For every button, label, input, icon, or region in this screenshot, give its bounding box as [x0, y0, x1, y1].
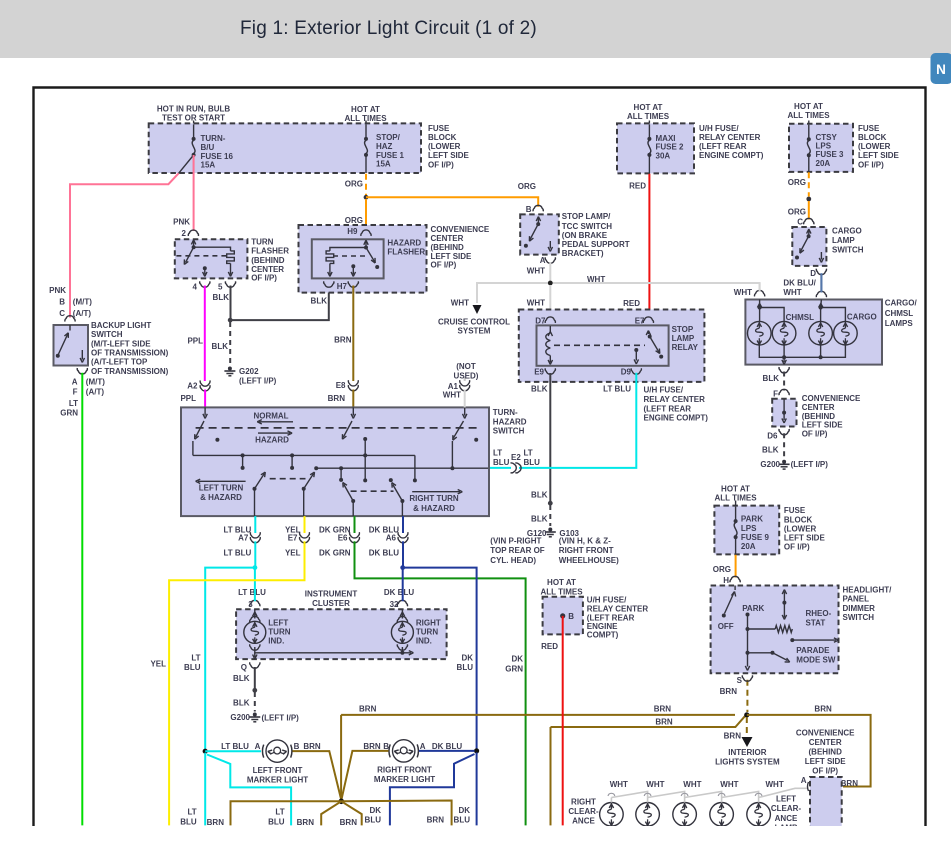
svg-text:A: A	[801, 776, 807, 785]
svg-text:BLK: BLK	[233, 674, 250, 683]
svg-text:CRUISE CONTROL: CRUISE CONTROL	[438, 318, 510, 327]
svg-text:CLEAR-: CLEAR-	[568, 807, 599, 816]
svg-text:IND.: IND.	[268, 636, 284, 645]
svg-text:F: F	[773, 390, 778, 399]
svg-text:BLU: BLU	[180, 817, 197, 826]
svg-text:LEFT FRONT: LEFT FRONT	[253, 766, 303, 775]
svg-text:4: 4	[193, 283, 198, 292]
svg-text:(LOWER: (LOWER	[428, 142, 461, 151]
svg-text:FUSE: FUSE	[858, 124, 880, 133]
svg-text:BLU: BLU	[365, 816, 382, 825]
svg-text:HAZARD: HAZARD	[255, 435, 289, 444]
svg-text:GRN: GRN	[505, 664, 523, 673]
svg-text:D6: D6	[767, 431, 778, 440]
svg-text:LEFT TURN: LEFT TURN	[199, 484, 244, 493]
svg-text:BLK: BLK	[531, 514, 548, 523]
svg-text:USED): USED)	[454, 371, 479, 380]
svg-text:INSTRUMENT: INSTRUMENT	[305, 589, 358, 598]
svg-text:ALL TIMES: ALL TIMES	[627, 112, 670, 121]
svg-text:G202: G202	[239, 367, 259, 376]
svg-text:BLK: BLK	[212, 342, 229, 351]
svg-text:LAMP: LAMP	[832, 236, 855, 245]
svg-text:B: B	[294, 742, 300, 751]
svg-text:DK BLU: DK BLU	[384, 588, 414, 597]
svg-text:C: C	[59, 309, 65, 318]
svg-text:PANEL: PANEL	[843, 595, 870, 604]
svg-text:A: A	[72, 377, 78, 386]
svg-text:OF I/P): OF I/P)	[784, 542, 810, 551]
svg-text:HOT AT: HOT AT	[721, 484, 750, 493]
svg-text:BRN: BRN	[655, 718, 673, 727]
svg-text:OFF: OFF	[718, 622, 734, 631]
svg-text:(M/T): (M/T)	[86, 377, 105, 386]
svg-text:Fig 1: Exterior Light Circuit: Fig 1: Exterior Light Circuit (1 of 2)	[240, 18, 537, 39]
svg-text:BLK: BLK	[213, 293, 230, 302]
svg-text:LEFT SIDE: LEFT SIDE	[802, 421, 844, 430]
svg-text:BLK: BLK	[762, 446, 779, 455]
svg-text:BRN: BRN	[340, 818, 358, 827]
svg-text:WHT: WHT	[646, 780, 664, 789]
svg-text:B/U: B/U	[201, 143, 215, 152]
svg-text:HOT AT: HOT AT	[634, 103, 663, 112]
svg-text:ANCE: ANCE	[775, 814, 798, 823]
svg-text:BLOCK: BLOCK	[784, 516, 813, 525]
svg-text:LEFT SIDE: LEFT SIDE	[858, 151, 900, 160]
svg-text:CARGO: CARGO	[847, 312, 877, 321]
svg-text:CENTER: CENTER	[802, 403, 835, 412]
svg-text:NORMAL: NORMAL	[253, 412, 288, 421]
svg-text:COMPT): COMPT)	[587, 631, 619, 640]
svg-text:BRN: BRN	[427, 816, 445, 825]
svg-text:DK GRN: DK GRN	[319, 549, 351, 558]
svg-text:TURN: TURN	[416, 628, 438, 637]
svg-text:LAMP: LAMP	[672, 334, 695, 343]
svg-text:WHEELHOUSE): WHEELHOUSE)	[559, 556, 619, 565]
svg-text:& HAZARD: & HAZARD	[200, 493, 242, 502]
svg-text:LT: LT	[524, 449, 533, 458]
svg-text:LT BLU: LT BLU	[223, 525, 251, 534]
svg-text:BRN: BRN	[654, 705, 672, 714]
svg-text:(BEHIND: (BEHIND	[809, 747, 843, 756]
svg-text:DK BLU: DK BLU	[432, 742, 462, 751]
svg-text:YEL: YEL	[150, 660, 166, 669]
svg-text:BRN: BRN	[814, 705, 832, 714]
svg-text:20A: 20A	[816, 159, 831, 168]
svg-text:CONVENIENCE: CONVENIENCE	[802, 394, 861, 403]
svg-text:(LOWER: (LOWER	[784, 524, 817, 533]
svg-text:BLU: BLU	[268, 817, 285, 826]
svg-text:ORG: ORG	[788, 178, 806, 187]
svg-text:C: C	[797, 217, 803, 226]
svg-text:STOP LAMP/: STOP LAMP/	[562, 212, 611, 221]
svg-text:& HAZARD: & HAZARD	[413, 504, 455, 513]
svg-text:FUSE 3: FUSE 3	[816, 150, 845, 159]
svg-text:RIGHT: RIGHT	[416, 619, 441, 628]
svg-text:PEDAL SUPPORT: PEDAL SUPPORT	[562, 240, 630, 249]
svg-text:ENGINE COMPT): ENGINE COMPT)	[644, 414, 709, 423]
svg-text:SWITCH: SWITCH	[843, 613, 875, 622]
svg-text:DK BLU/: DK BLU/	[783, 279, 816, 288]
svg-text:BLU: BLU	[454, 816, 471, 825]
svg-text:A1: A1	[448, 382, 459, 391]
svg-text:MARKER LIGHT: MARKER LIGHT	[247, 775, 308, 784]
svg-text:WHT: WHT	[734, 288, 752, 297]
svg-text:HAZ: HAZ	[376, 142, 393, 151]
svg-text:SWITCH: SWITCH	[91, 330, 123, 339]
svg-text:CHMSL: CHMSL	[786, 313, 815, 322]
svg-text:A: A	[255, 742, 261, 751]
svg-text:WHT: WHT	[451, 299, 469, 308]
svg-text:LEFT SIDE: LEFT SIDE	[805, 757, 847, 766]
svg-text:B: B	[59, 298, 65, 307]
svg-text:CLEAR-: CLEAR-	[771, 804, 802, 813]
svg-text:YEL: YEL	[285, 549, 301, 558]
svg-text:BLU: BLU	[184, 663, 201, 672]
svg-text:SWITCH: SWITCH	[493, 427, 525, 436]
svg-text:BLOCK: BLOCK	[858, 133, 887, 142]
svg-text:15A: 15A	[201, 160, 216, 169]
svg-text:FUSE: FUSE	[784, 506, 806, 515]
svg-text:ORG: ORG	[345, 216, 363, 225]
svg-text:(LOWER: (LOWER	[858, 142, 891, 151]
svg-text:DK BLU: DK BLU	[369, 549, 399, 558]
svg-text:BLOCK: BLOCK	[428, 133, 457, 142]
svg-text:ANCE: ANCE	[572, 817, 595, 826]
svg-text:FUSE: FUSE	[428, 124, 450, 133]
svg-text:BLK: BLK	[233, 699, 250, 708]
svg-text:FUSE 9: FUSE 9	[741, 533, 770, 542]
svg-text:PPL: PPL	[187, 337, 203, 346]
svg-text:LT BLU: LT BLU	[221, 742, 249, 751]
svg-text:E8: E8	[336, 381, 346, 390]
svg-text:HAZARD: HAZARD	[493, 417, 527, 426]
svg-text:WHT: WHT	[527, 299, 545, 308]
svg-text:FLASHER: FLASHER	[251, 247, 289, 256]
svg-text:(M/T-LEFT SIDE: (M/T-LEFT SIDE	[91, 340, 151, 349]
svg-text:CARGO: CARGO	[832, 226, 862, 235]
svg-text:RED: RED	[541, 642, 558, 651]
svg-text:G200: G200	[760, 460, 780, 469]
svg-text:(VIN P-RIGHT: (VIN P-RIGHT	[490, 537, 541, 546]
svg-text:5: 5	[218, 283, 223, 292]
svg-text:BRN: BRN	[207, 818, 225, 827]
svg-text:S: S	[737, 676, 743, 685]
svg-text:DK: DK	[369, 806, 381, 815]
svg-text:YEL: YEL	[285, 525, 301, 534]
svg-text:BRACKET): BRACKET)	[562, 249, 604, 258]
svg-text:15A: 15A	[376, 159, 391, 168]
svg-text:D7: D7	[535, 316, 546, 325]
svg-text:A7: A7	[238, 534, 249, 543]
svg-text:LT BLU: LT BLU	[603, 384, 631, 393]
svg-text:ORG: ORG	[518, 182, 536, 191]
svg-text:E7: E7	[288, 534, 298, 543]
svg-text:OF I/P): OF I/P)	[251, 273, 277, 282]
svg-text:OF I/P): OF I/P)	[802, 429, 828, 438]
svg-text:(A/T-LEFT TOP: (A/T-LEFT TOP	[91, 358, 148, 367]
svg-text:BLU: BLU	[493, 458, 510, 467]
svg-text:(ON BRAKE: (ON BRAKE	[562, 231, 608, 240]
svg-text:(LEFT REAR: (LEFT REAR	[699, 142, 747, 151]
svg-text:B: B	[568, 612, 574, 621]
svg-text:HOT AT: HOT AT	[547, 578, 576, 587]
svg-text:BRN: BRN	[303, 742, 321, 751]
svg-text:BRN: BRN	[720, 687, 738, 696]
svg-text:WHT: WHT	[683, 780, 701, 789]
svg-text:CONVENIENCE: CONVENIENCE	[431, 225, 490, 234]
svg-text:A2: A2	[187, 382, 198, 391]
svg-text:FLASHER: FLASHER	[387, 248, 425, 257]
svg-text:(LEFT REAR: (LEFT REAR	[644, 404, 692, 413]
svg-text:OF TRANSMISSION): OF TRANSMISSION)	[91, 367, 169, 376]
svg-text:BRN: BRN	[297, 818, 315, 827]
svg-text:RIGHT FRONT: RIGHT FRONT	[559, 546, 614, 555]
svg-text:DK: DK	[461, 653, 473, 662]
svg-text:SWITCH: SWITCH	[832, 245, 864, 254]
svg-text:(LEFT I/P): (LEFT I/P)	[791, 460, 829, 469]
svg-text:Q: Q	[241, 663, 247, 672]
svg-text:U/H FUSE/: U/H FUSE/	[587, 596, 627, 605]
svg-text:G200: G200	[230, 713, 250, 722]
svg-text:TCC SWITCH: TCC SWITCH	[562, 222, 612, 231]
svg-text:BLK: BLK	[531, 384, 548, 393]
svg-text:(A/T): (A/T)	[86, 387, 105, 396]
svg-text:ENGINE COMPT): ENGINE COMPT)	[699, 151, 764, 160]
svg-text:30A: 30A	[656, 151, 671, 160]
svg-text:PNK: PNK	[173, 217, 190, 226]
svg-text:CHMSL: CHMSL	[885, 309, 914, 318]
svg-text:OF TRANSMISSION): OF TRANSMISSION)	[91, 349, 169, 358]
svg-text:WHT: WHT	[720, 780, 738, 789]
svg-text:BLU: BLU	[457, 663, 474, 672]
svg-text:OF I/P): OF I/P)	[858, 161, 884, 170]
svg-text:(BEHIND: (BEHIND	[251, 256, 285, 265]
svg-text:LPS: LPS	[741, 524, 757, 533]
svg-text:E2: E2	[511, 453, 521, 462]
svg-text:INTERIOR: INTERIOR	[728, 748, 766, 757]
svg-text:ORG: ORG	[788, 208, 806, 217]
svg-text:TURN-: TURN-	[493, 408, 518, 417]
svg-text:STAT: STAT	[806, 619, 826, 628]
svg-text:D9: D9	[621, 367, 632, 376]
svg-text:STOP/: STOP/	[376, 133, 401, 142]
svg-text:BRN: BRN	[359, 705, 377, 714]
svg-text:CONVENIENCE: CONVENIENCE	[796, 728, 855, 737]
svg-text:RED: RED	[629, 181, 646, 190]
svg-text:CYL. HEAD): CYL. HEAD)	[490, 556, 536, 565]
svg-text:(BEHIND: (BEHIND	[802, 412, 836, 421]
svg-text:N: N	[936, 62, 946, 77]
svg-text:ALL TIMES: ALL TIMES	[787, 111, 830, 120]
svg-text:(LEFT I/P): (LEFT I/P)	[262, 713, 300, 722]
svg-text:GRN: GRN	[60, 408, 78, 417]
svg-text:D: D	[810, 269, 816, 278]
svg-text:WHT: WHT	[610, 780, 628, 789]
svg-text:CLUSTER: CLUSTER	[312, 599, 350, 608]
svg-text:PARK: PARK	[742, 604, 764, 613]
svg-text:B: B	[383, 742, 389, 751]
svg-text:DK: DK	[511, 655, 523, 664]
svg-text:B: B	[526, 205, 532, 214]
svg-text:U/H FUSE/: U/H FUSE/	[699, 124, 739, 133]
svg-text:A: A	[420, 742, 426, 751]
svg-text:OF I/P): OF I/P)	[428, 160, 454, 169]
svg-text:BLK: BLK	[763, 374, 780, 383]
svg-text:DIMMER: DIMMER	[843, 604, 876, 613]
svg-text:LT BLU: LT BLU	[238, 588, 266, 597]
svg-text:TURN-: TURN-	[201, 134, 226, 143]
svg-text:PNK: PNK	[49, 286, 66, 295]
svg-text:TOP REAR OF: TOP REAR OF	[490, 546, 544, 555]
svg-text:HOT AT: HOT AT	[794, 102, 823, 111]
svg-text:BLK: BLK	[531, 490, 548, 499]
svg-text:LEFT SIDE: LEFT SIDE	[784, 533, 826, 542]
svg-text:BLK: BLK	[311, 297, 328, 306]
svg-text:(LEFT REAR: (LEFT REAR	[587, 613, 635, 622]
svg-text:RELAY CENTER: RELAY CENTER	[699, 133, 761, 142]
svg-text:OF I/P): OF I/P)	[431, 260, 457, 269]
svg-text:(BEHIND: (BEHIND	[431, 243, 465, 252]
svg-text:TURN: TURN	[251, 237, 273, 246]
svg-text:CENTER: CENTER	[431, 234, 464, 243]
svg-text:LT: LT	[188, 808, 197, 817]
svg-text:BACKUP LIGHT: BACKUP LIGHT	[91, 321, 151, 330]
svg-text:LT: LT	[191, 653, 200, 662]
svg-text:WHT: WHT	[587, 275, 605, 284]
svg-text:BRN: BRN	[328, 394, 346, 403]
svg-text:20A: 20A	[741, 542, 756, 551]
svg-text:PPL: PPL	[180, 394, 196, 403]
svg-text:F: F	[73, 387, 78, 396]
svg-text:DK: DK	[458, 806, 470, 815]
svg-text:PARK: PARK	[741, 515, 763, 524]
svg-text:CENTER: CENTER	[809, 738, 842, 747]
svg-text:LEFT: LEFT	[776, 794, 796, 803]
svg-text:RELAY CENTER: RELAY CENTER	[644, 395, 706, 404]
svg-text:LIGHTS SYSTEM: LIGHTS SYSTEM	[715, 757, 780, 766]
svg-text:E9: E9	[534, 367, 544, 376]
svg-text:WHT: WHT	[783, 288, 801, 297]
svg-text:STOP: STOP	[672, 325, 694, 334]
svg-text:BLU: BLU	[524, 458, 541, 467]
svg-text:WHT: WHT	[443, 391, 461, 400]
svg-text:RIGHT FRONT: RIGHT FRONT	[377, 765, 432, 774]
svg-text:32: 32	[390, 600, 399, 609]
svg-text:A: A	[540, 256, 546, 265]
svg-text:RIGHT TURN: RIGHT TURN	[409, 494, 459, 503]
svg-text:ORG: ORG	[713, 565, 731, 574]
svg-text:BRN: BRN	[724, 731, 742, 740]
svg-text:H9: H9	[347, 227, 358, 236]
svg-text:LEFT: LEFT	[268, 619, 288, 628]
svg-text:HOT IN RUN, BULB: HOT IN RUN, BULB	[157, 104, 231, 113]
svg-text:E6: E6	[338, 534, 348, 543]
svg-text:LT: LT	[275, 808, 284, 817]
svg-text:ORG: ORG	[345, 179, 363, 188]
svg-text:RHEO-: RHEO-	[806, 609, 832, 618]
svg-text:U/H FUSE/: U/H FUSE/	[644, 386, 684, 395]
svg-text:H7: H7	[337, 282, 348, 291]
svg-text:TURN: TURN	[268, 628, 290, 637]
svg-text:HEADLIGHT/: HEADLIGHT/	[843, 585, 893, 594]
svg-text:3: 3	[248, 600, 253, 609]
svg-text:BRN: BRN	[363, 742, 381, 751]
svg-text:FUSE 2: FUSE 2	[656, 142, 685, 151]
svg-text:BRN: BRN	[334, 336, 352, 345]
svg-text:LT: LT	[69, 399, 78, 408]
svg-text:DK GRN: DK GRN	[319, 525, 351, 534]
svg-text:E7: E7	[635, 316, 645, 325]
svg-text:HOT AT: HOT AT	[351, 105, 380, 114]
svg-text:SYSTEM: SYSTEM	[458, 327, 491, 336]
svg-text:LEFT SIDE: LEFT SIDE	[428, 151, 470, 160]
svg-text:MODE SW: MODE SW	[796, 656, 836, 665]
svg-text:LT: LT	[493, 449, 502, 458]
svg-text:CARGO/: CARGO/	[885, 299, 918, 308]
svg-text:(M/T): (M/T)	[73, 298, 92, 307]
svg-text:(NOT: (NOT	[456, 362, 476, 371]
svg-text:RIGHT: RIGHT	[571, 798, 596, 807]
svg-text:HAZARD: HAZARD	[387, 239, 421, 248]
svg-text:OF I/P): OF I/P)	[812, 766, 838, 775]
svg-text:MARKER LIGHT: MARKER LIGHT	[374, 775, 435, 784]
svg-text:A6: A6	[386, 534, 397, 543]
svg-text:RELAY: RELAY	[672, 343, 699, 352]
svg-text:(VIN H, K & Z-: (VIN H, K & Z-	[559, 537, 611, 546]
svg-text:BRN: BRN	[841, 779, 859, 788]
svg-text:RELAY CENTER: RELAY CENTER	[587, 604, 649, 613]
svg-text:LAMPS: LAMPS	[885, 319, 914, 328]
svg-text:WHT: WHT	[765, 780, 783, 789]
svg-text:(LEFT I/P): (LEFT I/P)	[239, 376, 277, 385]
svg-text:2: 2	[182, 229, 187, 238]
svg-text:H: H	[723, 576, 729, 585]
svg-text:RED: RED	[623, 299, 640, 308]
svg-text:(A/T): (A/T)	[73, 309, 92, 318]
svg-text:PARADE: PARADE	[796, 646, 830, 655]
svg-text:ALL TIMES: ALL TIMES	[540, 587, 583, 596]
svg-text:DK BLU: DK BLU	[369, 525, 399, 534]
svg-text:LAMP: LAMP	[775, 824, 798, 833]
svg-text:IND.: IND.	[416, 636, 432, 645]
svg-text:ENGINE: ENGINE	[587, 622, 618, 631]
svg-text:LT BLU: LT BLU	[223, 549, 251, 558]
svg-text:WHT: WHT	[527, 266, 545, 275]
